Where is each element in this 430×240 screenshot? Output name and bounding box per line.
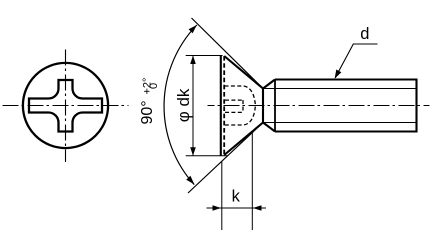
svg-text:k: k <box>232 188 241 206</box>
svg-text:φ dk: φ dk <box>174 88 193 122</box>
svg-text:0: 0 <box>148 83 160 89</box>
svg-text:90°: 90° <box>139 100 156 124</box>
svg-text:d: d <box>360 25 369 43</box>
